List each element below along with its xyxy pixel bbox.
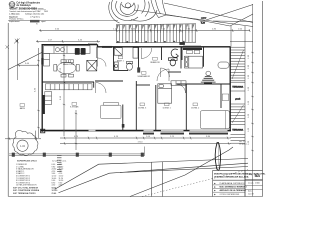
sofa L: [45, 84, 92, 105]
title sep top: [213, 169, 263, 171]
svg-text:S. ESTAR: S. ESTAR: [70, 106, 79, 109]
wall bath1 left: [113, 47, 115, 71]
window sills dark: [143, 133, 228, 135]
svg-text:SUPERFICIES UTILS: SUPERFICIES UTILS: [17, 161, 37, 163]
gate verticals: [144, 147, 146, 156]
kerb steep: [130, 147, 233, 197]
band end dark bar: [179, 42, 185, 45]
dim left garden horizontal: [18, 64, 40, 66]
landing text band: [231, 81, 246, 83]
dim ticks top: [40, 29, 250, 32]
closet shelf: [222, 94, 229, 101]
canopy swirl right: [131, 10, 157, 21]
windows bottom wall: [89, 130, 228, 132]
svg-text:SUP. UTIL TOTAL INTERIOR: SUP. UTIL TOTAL INTERIOR: [13, 187, 39, 190]
door arc kitchen: [98, 58, 107, 67]
small text above stamp area: [36, 24, 38, 26]
svg-text:SUP. CONSTRUIDA VIVENDA: SUP. CONSTRUIDA VIVENDA: [13, 189, 40, 192]
svg-text:AMPLIACIO DE LA TERRASSA: AMPLIACIO DE LA TERRASSA: [220, 189, 247, 192]
door arc dorm hall: [157, 69, 169, 81]
wall step: [97, 45, 99, 47]
kerb rising line: [200, 5, 253, 23]
svg-text:DORM. 1: DORM. 1: [163, 107, 171, 109]
wall dorm3/dorm1: [155, 85, 157, 131]
site boundary left: [7, 23, 9, 197]
house: [19, 43, 231, 134]
svg-text:escala: escala: [248, 182, 254, 184]
svg-text:VISAT 20095004889: VISAT 20095004889: [9, 7, 37, 11]
frame bottom: [9, 196, 263, 198]
kerb dashed axis: [142, 170, 248, 197]
svg-text:granit: granit: [235, 98, 240, 101]
glass door dark left: [43, 95, 45, 114]
svg-text:SUP. TERRASSA-PORXO: SUP. TERRASSA-PORXO: [13, 192, 36, 195]
window top kitchen: [89, 43, 97, 45]
svg-text:carrer: carrer: [201, 18, 207, 20]
kerb diagonal long: [164, 3, 253, 23]
shaft X box: [87, 60, 97, 71]
svg-text:PLANTA BAIXA. DISTRIBUCIO: PLANTA BAIXA. DISTRIBUCIO: [220, 182, 246, 185]
svg-text:Arq: Arq: [249, 173, 252, 176]
corner steps: [57, 156, 62, 172]
tread foot marks: [117, 41, 185, 43]
left dim chain outer: [38, 48, 40, 138]
wall right: [229, 47, 231, 131]
svg-text:2009: 2009: [44, 11, 48, 13]
row texts: [214, 182, 247, 196]
cypress leaf: [215, 143, 220, 171]
door arc hall-sala: [96, 83, 107, 94]
svg-text:DORM. 3: DORM. 3: [138, 107, 146, 109]
wall sala mid: [122, 105, 124, 131]
dim text top: [55, 29, 243, 31]
band top edge: [116, 24, 196, 25]
dim rows under house: [60, 137, 231, 139]
dimensions: [5, 24, 254, 152]
dark wall block kitchen left: [41, 58, 43, 65]
sweep curve: [134, 10, 230, 26]
driveway wedge: [151, 0, 166, 18]
dorm2 bed: [200, 111, 229, 129]
svg-text:JARDI: JARDI: [19, 107, 25, 110]
terrace width dim vertical: [75, 110, 77, 150]
svg-text:REBEDOR: REBEDOR: [150, 62, 160, 64]
dark window bar top: [183, 48, 202, 50]
wall dorm2 closet: [220, 84, 222, 108]
driveway post lines: [151, 162, 153, 196]
svg-text:5a: 5a: [255, 173, 261, 179]
band treads: [117, 24, 196, 43]
svg-text:4.30: 4.30: [52, 185, 56, 187]
bath1 fixtures: [114, 48, 138, 71]
wall bath1 right: [138, 47, 140, 71]
dorm1 bed: [158, 84, 172, 103]
svg-text:nov 09: nov 09: [248, 194, 254, 196]
wall bath2 bottom: [168, 71, 181, 73]
svg-text:DORM. 2: DORM. 2: [191, 107, 199, 109]
svg-text:SALA-CUINA: SALA-CUINA: [63, 63, 75, 66]
dorm4 bed: [185, 56, 203, 68]
door arc bath2: [161, 68, 170, 77]
svg-text:S-MENJADOR: S-MENJADOR: [137, 75, 150, 78]
dark blob wall sala: [122, 124, 125, 128]
wall dorms top: [177, 83, 231, 85]
exterior walls: [41, 45, 231, 132]
svg-text:habitatge unifamiliar aillat: habitatge unifamiliar aillat: [25, 13, 45, 16]
wardrobe row: [171, 81, 186, 86]
dim line upper2: [36, 40, 100, 42]
dim line garden bottom2: [60, 143, 231, 145]
garden table scalloped tree: [13, 130, 38, 155]
wall kitchen right: [96, 47, 98, 58]
wall bath1 bottom: [114, 70, 129, 72]
sink dark: [75, 48, 86, 55]
svg-text:4.90: 4.90: [59, 185, 63, 187]
swirl / diagonals top right: [134, 0, 253, 27]
kerb A diagonal: [55, 159, 248, 190]
wedge inner arc: [156, 0, 161, 14]
tree top: [109, 0, 157, 23]
wall bottom: [41, 130, 231, 132]
right stairs: [231, 26, 246, 197]
svg-text:TERRASSA: TERRASSA: [232, 129, 243, 132]
sala desk unit: [101, 103, 122, 119]
band dim ticks: [120, 30, 193, 33]
row lines: [213, 184, 245, 186]
dim line top long: [39, 30, 250, 32]
svg-text:ver plano: ver plano: [239, 143, 247, 146]
svg-text:Col·legi d'Arquitectes: Col·legi d'Arquitectes: [16, 2, 40, 5]
svg-text:a. Obra nova: a. Obra nova: [9, 14, 19, 16]
wall bath2/dorm4: [181, 47, 183, 60]
title sep verticals: [212, 170, 214, 196]
door arc rebedor: [141, 48, 152, 59]
tree canopy rings: [120, 2, 135, 14]
pedestal plant symbol: [201, 71, 216, 83]
title row line: [213, 179, 263, 181]
svg-text:94.00: 94.00: [52, 187, 57, 190]
wall hall bottom: [95, 80, 123, 82]
utility mark left: [6, 46, 10, 49]
right dim chain: [251, 52, 253, 151]
pole symbol: [14, 39, 20, 44]
door arc dorm2: [177, 85, 186, 94]
tub rounded: [218, 62, 229, 68]
stripe band stair: [116, 24, 196, 45]
site boundary top: [8, 20, 118, 22]
wall bath2 right: [180, 47, 182, 69]
stair wall upper extension: [230, 26, 232, 47]
svg-text:1.34: 1.34: [20, 145, 25, 148]
svg-text:BANY 1: BANY 1: [117, 60, 124, 63]
wall dorm1/dorm2: [185, 84, 187, 131]
kitchen counter: [44, 46, 91, 66]
fence bottom with posts: [9, 153, 145, 155]
svg-text:1/100: 1/100: [255, 182, 260, 184]
hall window: [102, 46, 112, 48]
band bottom edge: [116, 41, 196, 44]
svg-text:VIVENDA UNIFAMILIAR AILLADA: VIVENDA UNIFAMILIAR AILLADA: [214, 175, 249, 178]
wall hall/dorm4: [203, 47, 205, 67]
svg-text:J. Puig Serra: J. Puig Serra: [30, 15, 40, 18]
svg-text:21.40: 21.40: [52, 192, 57, 195]
kerb B diagonal: [59, 163, 249, 193]
dark riser wedges top: [117, 24, 195, 29]
street diagonals: [55, 147, 248, 197]
dim line right upper: [230, 40, 253, 42]
left dim chain inner: [63, 46, 65, 136]
upper flight treads: [231, 47, 246, 81]
corner pillar: [41, 129, 45, 133]
svg-text:signat: signat: [41, 20, 46, 23]
svg-text:COTES I SUPERFICIES: COTES I SUPERFICIES: [220, 194, 240, 196]
wall kitchen/sala: [42, 81, 94, 83]
plot boundary left inner: [17, 39, 19, 81]
lower flight treads: [231, 104, 246, 124]
svg-text:TERRASSA: TERRASSA: [232, 86, 243, 89]
wall dorm3 top: [136, 84, 150, 86]
boundary vertical x252.5: [252, 4, 254, 197]
dining table: [54, 60, 79, 77]
radiator blob: [137, 67, 140, 72]
tree trunk circle: [125, 3, 130, 8]
wall sala/dorm3: [135, 81, 137, 131]
window top right: [183, 46, 201, 48]
kerb horizontal: [213, 20, 253, 23]
area table: [13, 160, 67, 195]
garden bottom left: [6, 46, 145, 157]
kerb rising line 2: [230, 14, 253, 26]
stair diagonal lower: [232, 105, 244, 123]
stair diagonal upper: [232, 50, 244, 79]
svg-text:10 PAS-DISTRIBUIDOR: 10 PAS-DISTRIBUIDOR: [16, 184, 37, 187]
bath2 shower: [169, 49, 179, 66]
vanity outlines: [187, 50, 200, 53]
svg-text:17.10: 17.10: [137, 142, 143, 144]
room labels: [19, 56, 199, 110]
wall top kitchen: [42, 44, 98, 46]
svg-text:Emplacament: Emplacament: [9, 20, 20, 23]
stair right rail: [244, 26, 246, 197]
wall top main: [98, 46, 231, 48]
boundary diagonal top left: [8, 52, 42, 69]
bottom right title: [213, 141, 266, 196]
bottom flight treads: [231, 135, 246, 144]
interior walls: [42, 47, 230, 131]
kerb diagonal 2: [166, 15, 253, 27]
leaf midrib: [217, 143, 220, 166]
kerb B2: [120, 167, 248, 173]
dim left garden horizontal2: [5, 138, 41, 140]
frame right: [262, 1, 264, 197]
logo COAC: [9, 2, 15, 8]
wall bath2 left: [161, 47, 163, 60]
wall left: [41, 45, 43, 132]
title stamp block: [9, 2, 48, 23]
